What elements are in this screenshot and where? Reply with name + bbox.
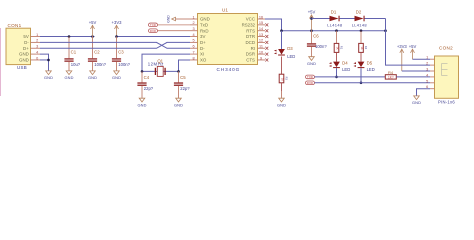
svg-text:DSR: DSR [246, 52, 255, 57]
svg-text:3: 3 [426, 68, 428, 72]
net flag RXD left [149, 29, 191, 33]
wire 5V rail [40, 36, 95, 38]
connector CON1 [6, 23, 31, 70]
power +5V mid [308, 10, 316, 31]
junction 5V C2 [91, 35, 94, 38]
capacitor C1 [64, 37, 80, 71]
svg-text:LL4148: LL4148 [327, 22, 343, 27]
wire CON2 pin6 GND [417, 89, 431, 96]
U1 left pin stubs [190, 15, 198, 60]
svg-text:4: 4 [36, 50, 38, 54]
svg-text:RxD: RxD [200, 28, 209, 33]
svg-text:GND: GND [19, 58, 29, 63]
svg-text:100n?: 100n? [315, 44, 327, 49]
svg-text:4: 4 [426, 73, 428, 77]
capacitor C5 [174, 71, 190, 98]
ground CON2 [412, 96, 421, 105]
svg-text:3V: 3V [200, 34, 205, 39]
svg-text:9: 9 [260, 56, 262, 60]
junction CON1 GND [47, 59, 50, 62]
svg-text:C4: C4 [144, 75, 150, 80]
wire crystal row [142, 70, 179, 72]
svg-text:1K: 1K [281, 78, 285, 81]
svg-text:GND: GND [88, 75, 97, 80]
capacitor C4 [137, 71, 153, 98]
svg-text:3: 3 [192, 27, 194, 31]
junction crystal left [141, 70, 144, 73]
svg-text:1: 1 [36, 33, 38, 37]
power +3V3 left [112, 20, 123, 36]
svg-text:22p?: 22p? [180, 86, 190, 91]
svg-text:GND: GND [166, 15, 170, 23]
svg-text:C5: C5 [180, 75, 186, 80]
svg-text:RXD: RXD [150, 29, 156, 33]
junction TXD D4 [335, 76, 338, 79]
svg-text:PIN-1x6: PIN-1x6 [438, 100, 455, 105]
junction bus CON2 branch [384, 29, 387, 32]
svg-text:RXD: RXD [307, 81, 313, 85]
wire USB D- crossover [40, 42, 190, 48]
junction bus R1 [335, 29, 338, 32]
diode D2 LL4148 [352, 9, 368, 27]
svg-text:DTR: DTR [246, 34, 255, 39]
svg-text:100n?: 100n? [94, 62, 106, 67]
svg-text:10: 10 [259, 50, 263, 54]
wire VCC pin16 to bus [265, 19, 282, 31]
svg-text:R1: R1 [340, 46, 344, 50]
wire XO [179, 60, 191, 71]
resistor R3 [279, 74, 288, 98]
svg-text:VCC: VCC [246, 17, 255, 22]
svg-text:GND: GND [307, 61, 316, 66]
svg-text:C3: C3 [118, 50, 124, 55]
LED D5 [353, 60, 374, 82]
svg-text:3: 3 [36, 45, 38, 49]
connector CON2 [435, 46, 459, 105]
junction 5V C1 [68, 35, 71, 38]
svg-text:XO: XO [200, 58, 207, 63]
svg-text:11: 11 [259, 45, 263, 49]
svg-text:1K?: 1K? [388, 75, 394, 79]
svg-text:1: 1 [192, 15, 194, 19]
frame border left [0, 28, 2, 96]
resistor R2 [359, 31, 368, 62]
ground C6 [307, 57, 316, 66]
svg-text:GND: GND [137, 102, 146, 107]
power +5V right [409, 44, 430, 59]
svg-text:GND: GND [174, 102, 183, 107]
svg-text:D3: D3 [287, 46, 293, 51]
svg-text:5: 5 [426, 79, 428, 83]
CON2 pin stubs [426, 56, 434, 89]
svg-text:TXD: TXD [307, 75, 313, 79]
svg-text:5: 5 [192, 39, 194, 43]
LED D4 [329, 60, 350, 77]
junction bus C6 [310, 29, 313, 32]
svg-text:2: 2 [426, 62, 428, 66]
svg-text:12MHz: 12MHz [148, 62, 164, 67]
crystal Q1 [148, 58, 165, 76]
svg-text:12: 12 [259, 39, 263, 43]
svg-text:RTS: RTS [246, 28, 255, 33]
svg-text:CON1: CON1 [8, 23, 22, 28]
svg-text:D5: D5 [367, 60, 373, 65]
svg-text:U1: U1 [222, 8, 228, 13]
power +5V left [89, 20, 97, 36]
svg-text:D+: D+ [200, 40, 206, 45]
svg-text:LED: LED [287, 54, 295, 59]
svg-text:7: 7 [192, 50, 194, 54]
svg-text:TXD: TXD [150, 23, 156, 27]
svg-text:1: 1 [426, 56, 428, 60]
svg-text:C6: C6 [313, 34, 319, 39]
ground CON1 [44, 71, 53, 80]
ground C4 [137, 98, 146, 107]
U1 right pin stubs [258, 15, 269, 61]
svg-text:GND: GND [200, 17, 210, 22]
svg-text:1K: 1K [336, 47, 340, 50]
capacitor C2 [88, 37, 107, 71]
ground U1 pin1 [166, 15, 190, 23]
svg-text:10u?: 10u? [71, 62, 81, 67]
svg-text:6: 6 [192, 45, 194, 49]
CON1 pin stubs [31, 33, 41, 60]
svg-text:16: 16 [259, 15, 263, 19]
svg-text:C2: C2 [94, 50, 100, 55]
junction +5V diodes [310, 17, 313, 20]
diode D1 LL4148 [327, 9, 343, 27]
svg-text:USB: USB [17, 65, 27, 70]
svg-text:D+: D+ [23, 46, 29, 51]
svg-text:+3V3: +3V3 [397, 44, 408, 49]
LED D3 [274, 31, 295, 74]
svg-text:LED: LED [367, 67, 375, 72]
svg-text:GND: GND [112, 75, 121, 80]
net flag TXD left [149, 23, 191, 27]
junction bus R2 [360, 29, 363, 32]
svg-text:2: 2 [192, 21, 194, 25]
svg-text:GND: GND [19, 52, 29, 57]
ground R3 [277, 98, 286, 107]
capacitor C6 [307, 31, 327, 57]
ground C2 [88, 71, 97, 80]
svg-text:4: 4 [192, 33, 194, 37]
svg-text:DCD: DCD [245, 40, 255, 45]
svg-text:TxD: TxD [200, 22, 208, 27]
svg-text:15: 15 [259, 21, 263, 25]
svg-text:D-: D- [200, 46, 205, 51]
svg-text:GND: GND [412, 100, 421, 105]
svg-text:R3: R3 [285, 77, 289, 81]
svg-text:GND: GND [44, 75, 53, 80]
svg-text:RI: RI [251, 46, 255, 51]
svg-text:CON2: CON2 [439, 46, 453, 51]
ground C3 [112, 71, 121, 80]
svg-text:13: 13 [259, 33, 263, 37]
svg-text:D4: D4 [342, 60, 348, 65]
svg-text:+5V: +5V [308, 10, 316, 15]
wire CON1 GND [40, 54, 49, 71]
wire +3V3 to pin 4 [117, 36, 191, 38]
svg-text:100n?: 100n? [118, 62, 130, 67]
svg-text:XI: XI [200, 52, 204, 57]
svg-text:CH340G: CH340G [217, 67, 241, 72]
svg-text:+5V: +5V [409, 44, 417, 49]
wire XI [142, 54, 190, 71]
ground C5 [174, 98, 183, 107]
svg-text:8: 8 [192, 56, 194, 60]
svg-text:R2: R2 [364, 46, 368, 50]
junction bus D3 [280, 29, 283, 32]
svg-text:5V: 5V [23, 34, 28, 39]
svg-text:22p?: 22p? [144, 86, 154, 91]
wire diode row [312, 19, 386, 31]
wire VCC bus [282, 30, 386, 32]
svg-text:C1: C1 [71, 50, 77, 55]
svg-text:GND: GND [64, 75, 73, 80]
svg-text:14: 14 [259, 27, 263, 31]
junction +3V3 C3 [115, 35, 118, 38]
svg-text:LED: LED [342, 67, 350, 72]
svg-text:2: 2 [36, 39, 38, 43]
svg-text:LL4148: LL4148 [352, 22, 368, 27]
svg-text:D-: D- [24, 40, 29, 45]
svg-text:0: 0 [36, 56, 38, 60]
junction crystal right [177, 70, 180, 73]
ground C1 [64, 71, 73, 80]
power +3V3 right [397, 44, 430, 71]
op-amp U1 CH340G [198, 8, 258, 73]
svg-text:D2: D2 [356, 9, 362, 14]
svg-text:+5V: +5V [89, 20, 97, 25]
junction RXD D5 [360, 82, 363, 85]
wire USB D+ crossover [40, 42, 190, 48]
svg-text:D1: D1 [331, 9, 337, 14]
svg-text:RS232: RS232 [242, 22, 256, 27]
svg-text:1K: 1K [360, 47, 364, 50]
resistor R1 [334, 31, 343, 62]
svg-text:GND: GND [277, 102, 286, 107]
wire bus to CON2 pin2 [386, 31, 431, 65]
net flag TXD right [306, 75, 386, 79]
svg-text:+3V3: +3V3 [112, 20, 123, 25]
capacitor C3 [112, 37, 131, 71]
net flag RXD right [306, 81, 431, 85]
svg-text:CTS: CTS [246, 58, 255, 63]
resistor R4 [385, 70, 430, 79]
svg-text:R4: R4 [388, 70, 394, 75]
